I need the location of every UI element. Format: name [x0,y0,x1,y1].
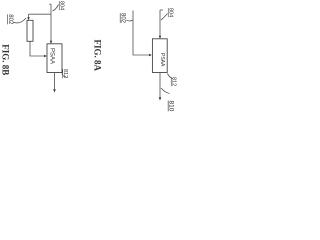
wire from block bottom to amplifier input with arrowhead [30,41,44,56]
arrowhead into amplifier top (FIG.8A) [159,36,162,39]
svg-text:FIG. 8B: FIG. 8B [0,44,10,75]
leader from supply wire to 804 [161,14,168,21]
svg-text:PSAA: PSAA [49,48,55,64]
leader from 802 to block [13,18,26,23]
leader from 802 to input wire [127,20,133,21]
leader from box corner to 812 [62,74,67,78]
figure label FIG. 8A [93,40,103,72]
wire from top rail into block with arrowhead [28,14,30,17]
label 810 [168,101,175,112]
supply wire (FIG.8A) [159,10,161,36]
block (small rectangle) [27,20,33,41]
svg-text:PSAA: PSAA [159,53,165,67]
wire main supply vertical [50,4,52,41]
tick at top of supply line [49,3,51,5]
amplifier block PSAA (FIG.8B) [47,44,62,73]
wire horizontal top rail [29,13,52,15]
label 804 [59,1,65,10]
label 812 (FIG.8B) [62,69,68,78]
amplifier block PSAA (FIG.8A) [152,39,167,73]
svg-text:802: 802 [7,14,13,25]
label 802 (FIG.8A) [120,13,126,24]
leader from supply line to 804 [53,5,59,12]
input wire with arrowhead (FIG.8A) [133,11,149,56]
svg-text:804: 804 [168,8,174,17]
label 802 [7,14,13,25]
svg-text:804: 804 [59,1,65,10]
tick at top of supply wire [160,9,163,11]
arrowhead into amplifier top [50,41,53,44]
leader from box corner to 812 [167,74,172,79]
leader from output wire to 810 [161,88,170,94]
svg-text:FIG. 8A: FIG. 8A [93,40,103,72]
svg-text:802: 802 [120,13,126,24]
svg-text:810: 810 [168,101,175,112]
output wire with arrowhead (FIG.8B) [54,73,56,90]
figure label FIG. 8B [0,44,10,75]
label 804 (FIG.8A) [168,8,174,17]
output wire with arrowhead (FIG.8A) [159,73,161,98]
label 812 (FIG.8A) [171,77,177,86]
